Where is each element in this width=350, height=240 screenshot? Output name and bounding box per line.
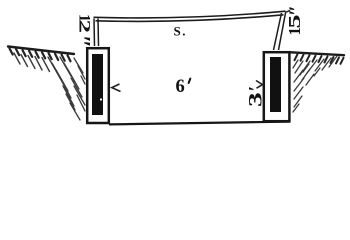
wire S: right vertical drop (double line) [274, 13, 282, 50]
ground surface line right [291, 52, 344, 55]
ground surface line left [8, 47, 74, 55]
earth hatching left comb ticks [10, 49, 71, 62]
electrode E2 outer box (right) [264, 52, 290, 121]
earth hatching left upper-band strokes [14, 53, 50, 72]
svg-text:6: 6 [176, 77, 185, 97]
wire S: left vertical drop (double line) [93, 19, 96, 47]
svg-text:3: 3 [245, 92, 266, 107]
earth hatching left wall-band strokes [48, 57, 85, 120]
white fleck on E1 core [100, 98, 102, 100]
electrode E2 carbon core [270, 57, 281, 112]
arrow marker pointing at E1 [112, 84, 121, 92]
svg-text:S.: S. [174, 23, 187, 38]
svg-text:2: 2 [76, 20, 94, 34]
trench bottom line [109, 122, 290, 125]
svg-text:″: ″ [68, 35, 94, 48]
svg-text:′: ′ [246, 86, 267, 91]
wire S: horizontal double line [94, 11, 286, 18]
earth hatching right comb ticks [295, 54, 344, 64]
arrow marker pointing at E2 [256, 81, 263, 89]
earth hatching right slope strokes [293, 56, 337, 112]
electrode E1 outer box (left) [87, 48, 109, 123]
electrode E1 carbon core [92, 54, 103, 115]
svg-text:″: ″ [286, 5, 308, 16]
wire S: right corner overshoot tick [286, 11, 290, 13]
